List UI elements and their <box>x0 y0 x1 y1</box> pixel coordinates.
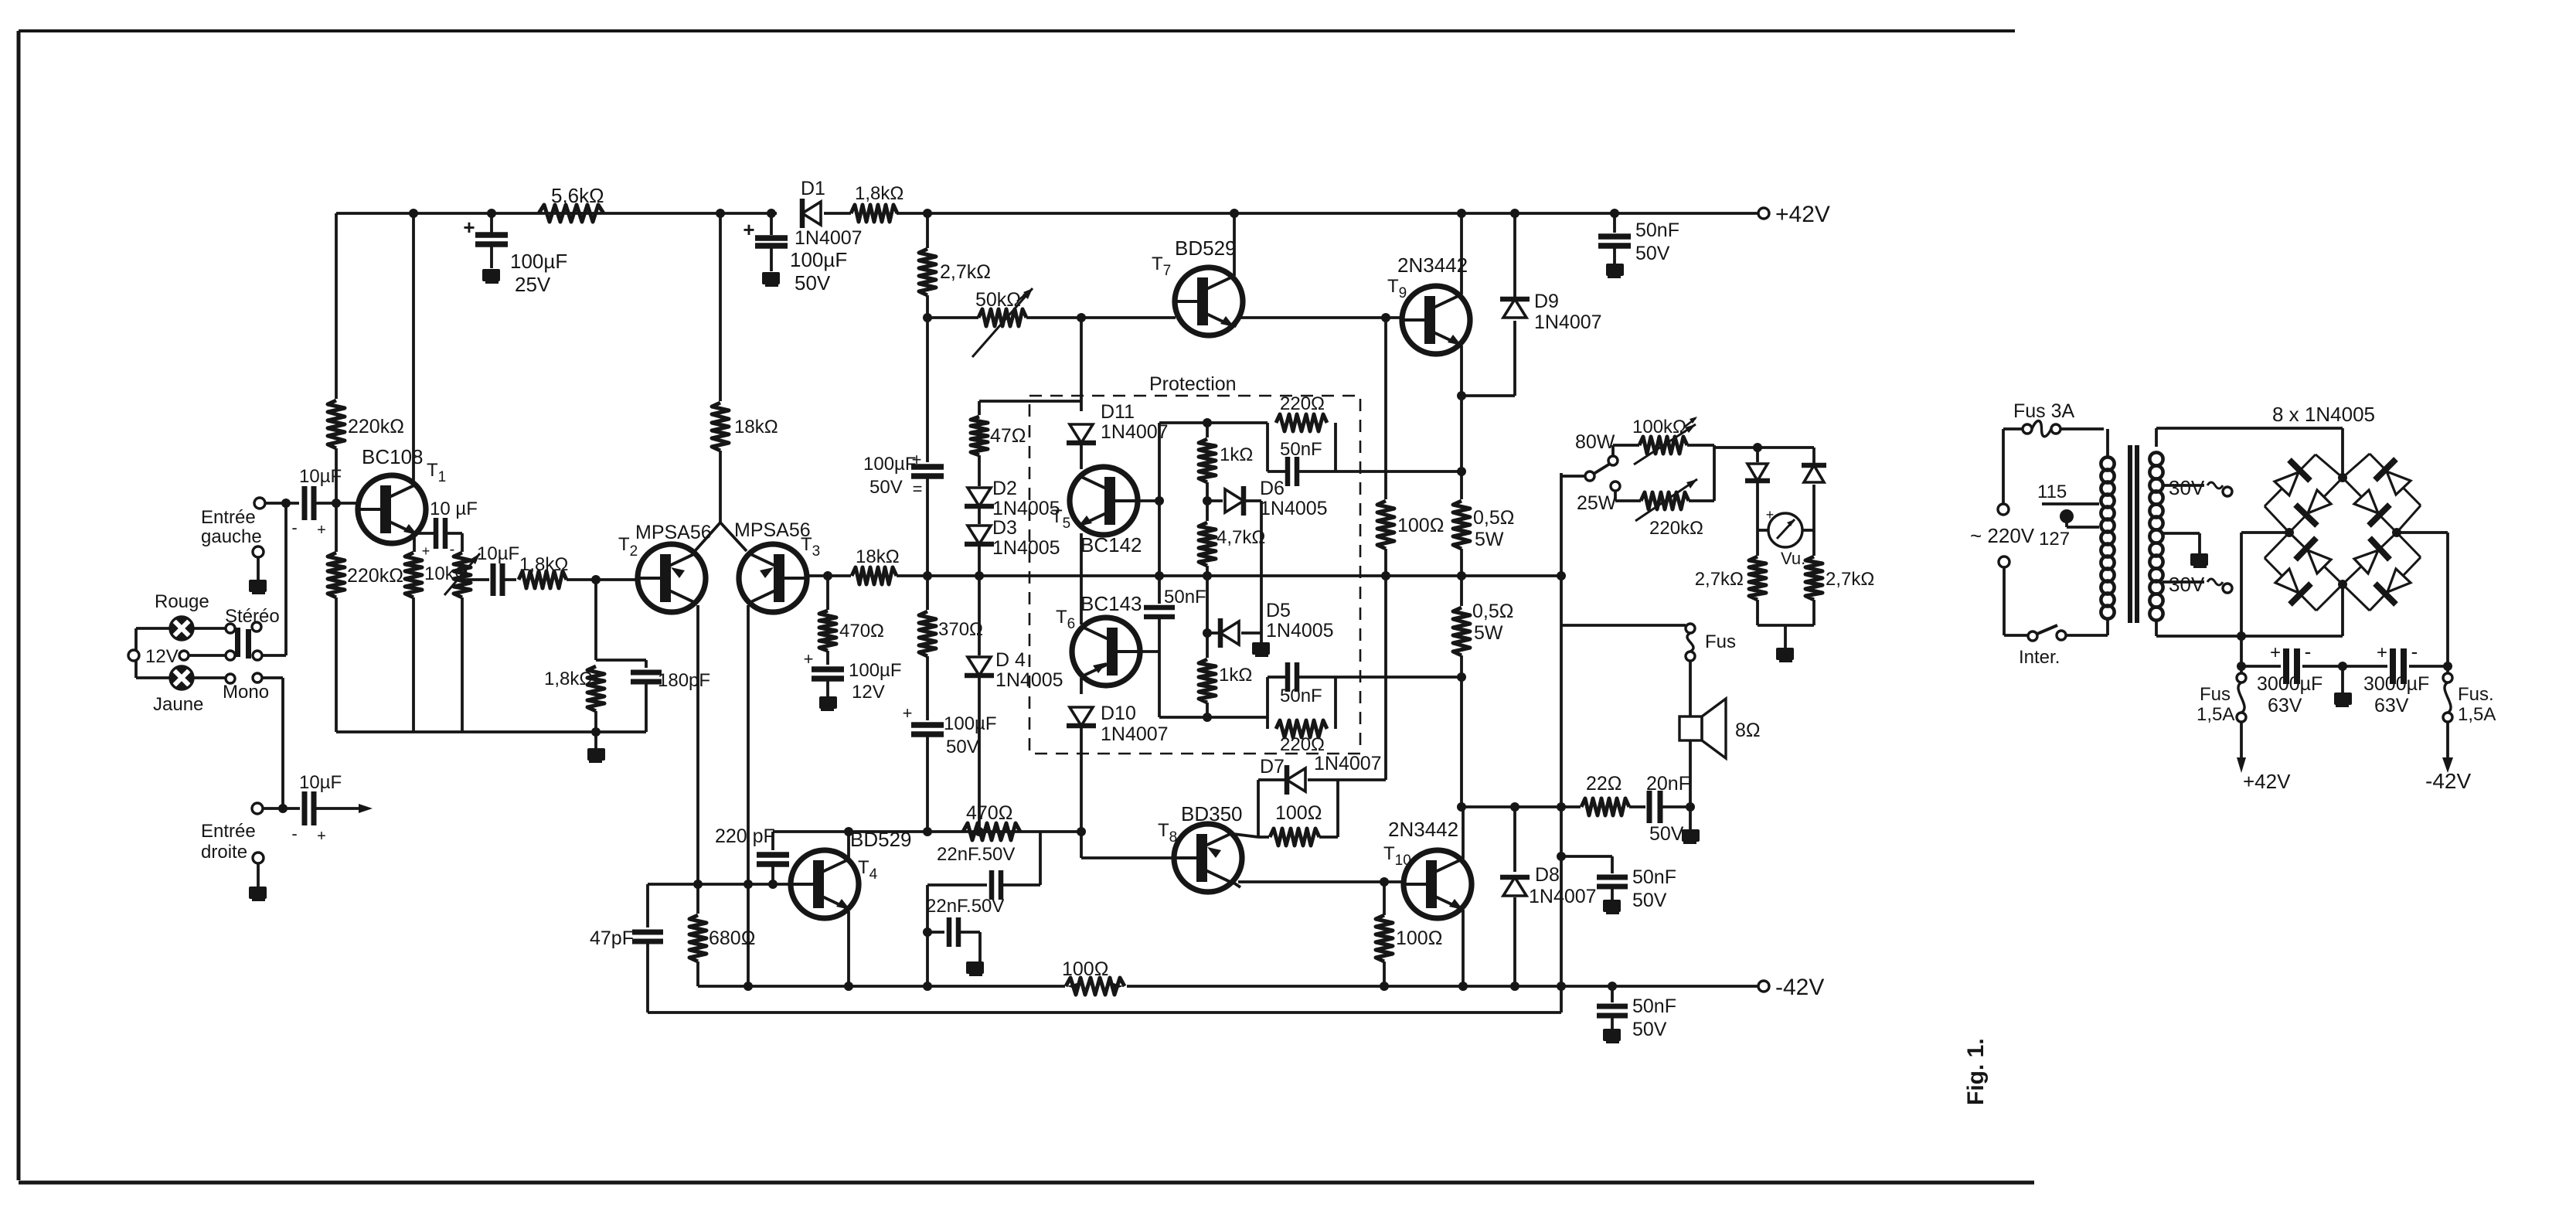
wire T7 collector <box>1233 213 1236 276</box>
svg-text:8 x 1N4005: 8 x 1N4005 <box>2272 403 2375 426</box>
svg-text:+: + <box>317 522 326 539</box>
transistor T2 MPSA56 <box>638 544 706 612</box>
wire snubber to 0,5 column <box>1336 676 1462 679</box>
svg-text:+: + <box>2377 642 2387 663</box>
wire output column <box>1560 473 1563 1012</box>
resistor 2,7k <box>919 249 936 295</box>
resistor 100 parallel D7 <box>1258 836 1269 839</box>
wire T1 emitter column <box>413 533 416 552</box>
wire feedback node down <box>594 580 597 660</box>
diode D4 1N4005 <box>968 657 991 676</box>
svg-text:~ 220V: ~ 220V <box>1970 524 2035 547</box>
transistor T7 BD529 <box>1175 267 1243 335</box>
capacitor 10uF right channel <box>263 807 300 810</box>
wire VU ground <box>1758 624 1814 627</box>
capacitor 10uF emitter <box>414 532 434 535</box>
wire mains top <box>2003 427 2023 431</box>
wire +42V rail <box>336 212 777 215</box>
wire input to cap <box>265 502 299 505</box>
wire snubber to T9 emitter column <box>1336 470 1462 473</box>
resistor 220k upper <box>335 213 338 399</box>
svg-text:Fig. 1.: Fig. 1. <box>1963 1038 1989 1105</box>
wire 47ohm tap <box>979 400 1081 403</box>
svg-text:BD350: BD350 <box>1181 802 1243 825</box>
wire T10 collector <box>1462 807 1465 859</box>
svg-text:100µF: 100µF <box>510 250 567 273</box>
svg-text:220kΩ: 220kΩ <box>348 416 404 437</box>
capacitor 3000uF 63V right <box>2390 648 2396 684</box>
svg-text:D8: D8 <box>1535 864 1560 886</box>
resistor 470 to ground leg <box>826 576 829 610</box>
svg-text:1N4007: 1N4007 <box>1314 753 1382 774</box>
svg-text:-: - <box>291 518 297 537</box>
transistor T9 2N3442 <box>1402 286 1470 354</box>
bridge diode 6 <box>2370 557 2421 611</box>
svg-text:Jaune: Jaune <box>153 694 203 715</box>
transistor T10 2N3442 <box>1404 850 1472 918</box>
resistor 47 <box>971 417 988 455</box>
capacitor 50nF on -42V rail <box>1608 982 1617 991</box>
svg-text:D7: D7 <box>1260 756 1285 778</box>
svg-text:3000µF: 3000µF <box>2257 673 2322 695</box>
svg-text:8Ω: 8Ω <box>1735 720 1761 741</box>
transformer secondary <box>2155 428 2158 447</box>
svg-text:10µF: 10µF <box>299 772 342 793</box>
resistor 1k upper <box>1206 423 1209 437</box>
wire T9 emitter <box>1460 345 1463 396</box>
svg-text:115: 115 <box>2037 482 2067 502</box>
resistor 5,6k <box>539 205 604 222</box>
svg-text:-: - <box>2411 640 2418 663</box>
svg-text:+: + <box>1766 507 1775 522</box>
ground mid rail <box>2341 666 2344 693</box>
resistor 4,7k <box>1206 501 1209 521</box>
resistor 680 <box>696 884 699 914</box>
wire D10 to T8 base <box>1080 832 1083 858</box>
wire D7 node up to output rail <box>1338 778 1386 781</box>
wire T5 emitter to T6 <box>1080 533 1083 625</box>
wire emitters join <box>695 522 720 551</box>
svg-text:Inter.: Inter. <box>2019 647 2060 668</box>
resistor 10k <box>405 553 422 597</box>
wire mono switch down to right input <box>262 676 283 679</box>
svg-text:Vu.: Vu. <box>1781 549 1805 568</box>
svg-text:2N3442: 2N3442 <box>1397 254 1468 277</box>
transistor T6 BC143 <box>1072 618 1140 686</box>
wire secondary bottom <box>2156 635 2343 638</box>
terminal +42V <box>1758 208 1769 219</box>
svg-text:25W: 25W <box>1577 492 1617 514</box>
svg-text:MPSA56: MPSA56 <box>734 519 811 541</box>
svg-text:1N4007: 1N4007 <box>795 227 863 249</box>
wire T5/T6 base column <box>1158 423 1161 604</box>
diode D3 1N4005 <box>968 526 991 544</box>
svg-text:Protection: Protection <box>1149 373 1237 395</box>
svg-text:18kΩ: 18kΩ <box>734 417 778 437</box>
terminal Entree droite <box>252 803 263 814</box>
fuse 1,5A left <box>2237 662 2246 671</box>
potentiometer 10k trim <box>461 533 464 552</box>
capacitor 100uF 25V <box>490 213 493 233</box>
resistor 0,5 5W lower <box>1460 576 1463 606</box>
wire T7 emitter to T9 base <box>1234 318 1240 327</box>
svg-text:-: - <box>2305 640 2312 663</box>
wire -42V rail <box>698 985 1065 988</box>
resistor 18k feedback <box>852 567 897 584</box>
svg-text:2N3442: 2N3442 <box>1388 818 1458 841</box>
page frame <box>19 29 2015 32</box>
wire bridge S down <box>2341 584 2344 636</box>
svg-text:47Ω: 47Ω <box>990 425 1026 447</box>
svg-text:100µF: 100µF <box>849 660 902 681</box>
svg-text:220Ω: 220Ω <box>1280 393 1325 414</box>
svg-text:BC143: BC143 <box>1080 592 1142 615</box>
wire secondary top to bridge <box>2156 427 2343 430</box>
svg-text:1,8kΩ: 1,8kΩ <box>519 554 568 575</box>
snubber 470R/22nF <box>963 823 1020 840</box>
svg-text:+42V: +42V <box>2243 770 2291 793</box>
secondary tap 30V lower <box>2163 580 2204 584</box>
potentiometer 220k <box>1614 491 1617 501</box>
svg-text:5W: 5W <box>1475 529 1504 550</box>
wire 2,7k column <box>926 213 929 248</box>
wire lower base row <box>1159 716 1268 719</box>
svg-text:D1: D1 <box>801 178 825 199</box>
bridge diode 8 <box>2343 533 2397 584</box>
transistor T3 MPSA56 <box>739 544 807 612</box>
wire T6 base <box>1140 650 1159 653</box>
wire with arrow to other channel <box>315 807 360 810</box>
diode D7 1N4007 <box>1258 778 1285 781</box>
capacitor 50nF mid <box>1144 605 1175 611</box>
resistor 220k lower <box>335 503 338 552</box>
svg-text:220kΩ: 220kΩ <box>347 565 403 587</box>
lamp Jaune <box>170 666 193 689</box>
diode D8 1N4007 <box>1513 807 1516 872</box>
wire D6-D5 link <box>1260 501 1263 633</box>
wire bridge E out <box>2397 531 2448 534</box>
svg-text:1N4007: 1N4007 <box>1101 723 1169 745</box>
capacitor 3000uF 63V left <box>2283 648 2289 684</box>
svg-text:Rouge: Rouge <box>155 591 209 612</box>
svg-text:10µF: 10µF <box>477 543 519 564</box>
svg-text:D 4: D 4 <box>995 649 1026 671</box>
svg-text:-42V: -42V <box>1775 975 1824 1000</box>
svg-text:22Ω: 22Ω <box>1586 773 1622 795</box>
svg-text:D2: D2 <box>992 478 1017 499</box>
wire T4 base rail <box>648 883 791 886</box>
svg-text:Mono: Mono <box>223 682 269 703</box>
svg-text:30V: 30V <box>2169 573 2205 596</box>
svg-text:100µF: 100µF <box>863 454 917 475</box>
capacitor 100uF 50V lower <box>911 722 944 728</box>
svg-text:100kΩ: 100kΩ <box>1632 417 1686 437</box>
wire T4 collector <box>847 832 850 860</box>
svg-text:50nF: 50nF <box>1632 866 1676 888</box>
fuse output Fus <box>1561 624 1686 627</box>
wire T2 collector down <box>696 605 699 884</box>
resistor 1,8k to ground <box>587 666 604 711</box>
wire T9 collector <box>1460 213 1463 294</box>
ground <box>819 696 837 709</box>
protection dashed box <box>1029 396 1360 754</box>
capacitor 50nF on +42 rail <box>1610 209 1619 218</box>
svg-text:5W: 5W <box>1474 622 1503 644</box>
svg-text:BD529: BD529 <box>850 828 912 851</box>
svg-text:50nF: 50nF <box>1632 995 1676 1017</box>
snubber 220R/50nF lower <box>1266 677 1269 729</box>
svg-text:+: + <box>903 703 913 723</box>
wire T8 collector to T10 base <box>1234 883 1240 887</box>
svg-text:Fus: Fus <box>1705 631 1736 652</box>
svg-text:+: + <box>317 828 326 845</box>
svg-text:-42V: -42V <box>2425 769 2471 793</box>
svg-text:1N4005: 1N4005 <box>992 498 1060 519</box>
svg-text:50V: 50V <box>1649 823 1684 845</box>
svg-text:+: + <box>463 216 475 239</box>
svg-text:50V: 50V <box>1632 890 1667 911</box>
speaker 8ohm <box>1679 716 1702 740</box>
bridge diode 3 <box>2289 478 2343 533</box>
svg-text:12V: 12V <box>145 646 179 667</box>
svg-text:1,8kΩ: 1,8kΩ <box>855 183 903 204</box>
svg-text:-: - <box>291 824 297 843</box>
svg-text:63V: 63V <box>2268 695 2302 716</box>
wire DC rail with caps <box>2241 665 2281 668</box>
ground <box>249 580 267 592</box>
wire pots to VU bridge <box>1687 444 1714 447</box>
ground D5 <box>1260 633 1263 642</box>
svg-text:470Ω: 470Ω <box>839 621 884 642</box>
wire stereo switch to input <box>262 654 286 657</box>
capacitor 100uF 50V mid <box>926 318 929 462</box>
diode VU right <box>1812 448 1815 464</box>
svg-text:20nF: 20nF <box>1646 773 1690 795</box>
wire 50k to T7 base <box>1081 316 1176 319</box>
terminal -42V <box>1758 981 1769 992</box>
diode D5 1N4005 <box>1207 631 1218 635</box>
svg-text:MPSA56: MPSA56 <box>635 522 712 543</box>
svg-text:12V: 12V <box>852 682 885 703</box>
diode D11 1N4007 <box>1080 318 1083 411</box>
svg-text:Entrée: Entrée <box>201 821 256 842</box>
svg-text:2,7kΩ: 2,7kΩ <box>1695 569 1744 590</box>
svg-text:+: + <box>912 450 922 469</box>
svg-text:100Ω: 100Ω <box>1275 802 1322 824</box>
svg-text:100Ω: 100Ω <box>1396 927 1442 949</box>
transformer primary <box>2106 618 2109 635</box>
svg-text:D9: D9 <box>1534 291 1559 312</box>
svg-text:D11: D11 <box>1101 401 1135 423</box>
bridge diode 4 <box>2343 478 2397 533</box>
wire to T2 base <box>567 578 638 581</box>
svg-text:50V: 50V <box>1635 243 1670 264</box>
svg-text:2,7kΩ: 2,7kΩ <box>940 261 991 283</box>
diode D2 1N4005 <box>968 488 991 506</box>
svg-text:1,5A: 1,5A <box>2458 704 2496 725</box>
transistor T1 BC108 <box>358 475 426 543</box>
resistor 370 <box>926 576 929 610</box>
svg-text:2,7kΩ: 2,7kΩ <box>1826 569 1874 590</box>
svg-text:BC142: BC142 <box>1080 533 1142 556</box>
capacitor 180pF <box>645 660 648 668</box>
resistor 100 T10 base <box>1383 882 1386 915</box>
svg-text:50kΩ: 50kΩ <box>975 289 1021 311</box>
svg-text:180pF: 180pF <box>658 670 710 691</box>
svg-text:BD529: BD529 <box>1175 237 1237 260</box>
fuse 1,5A right <box>2443 662 2452 671</box>
svg-text:50nF: 50nF <box>1280 439 1322 460</box>
wire T3 base node <box>807 574 851 577</box>
wire T1 collector up <box>412 213 415 485</box>
capacitor 100uF 50V (left of D1) <box>770 213 773 235</box>
transistor T4 BD529 <box>791 850 859 918</box>
svg-text:1N4005: 1N4005 <box>992 537 1060 559</box>
svg-text:+42V: +42V <box>1775 202 1830 227</box>
svg-text:D10: D10 <box>1101 703 1136 724</box>
svg-text:22nF.50V: 22nF.50V <box>937 844 1015 865</box>
svg-text:Entrée: Entrée <box>201 507 256 528</box>
wire T4 emitter <box>847 911 850 986</box>
svg-text:1N4005: 1N4005 <box>1260 498 1328 519</box>
svg-text:1,5A: 1,5A <box>2197 704 2234 725</box>
svg-text:gauche: gauche <box>201 526 262 547</box>
svg-text:Fus.: Fus. <box>2458 684 2494 705</box>
svg-text:50V: 50V <box>1632 1019 1667 1040</box>
svg-text:droite: droite <box>201 842 247 863</box>
svg-text:Fus: Fus <box>2200 684 2231 705</box>
svg-text:22nF.50V: 22nF.50V <box>926 896 1004 917</box>
svg-text:Fus 3A: Fus 3A <box>2013 400 2075 422</box>
switch Inter <box>2004 634 2028 637</box>
resistor 18k from rail <box>719 213 722 401</box>
switch 80W/25W <box>1561 475 1585 478</box>
svg-text:D3: D3 <box>992 517 1017 539</box>
resistor 1,8k series <box>519 571 567 588</box>
transistor T8 BD350 <box>1174 824 1242 892</box>
diode D9 1N4007 <box>1462 394 1515 397</box>
resistor 100 bias <box>1384 318 1387 499</box>
svg-text:0,5Ω: 0,5Ω <box>1473 507 1514 529</box>
capacitor 10uF to 2nd stage <box>467 578 489 581</box>
wire VAS top rail <box>773 830 1080 833</box>
wire ground bus under input stage <box>336 730 646 733</box>
svg-text:30V: 30V <box>2169 476 2205 499</box>
secondary center tap <box>2163 532 2200 535</box>
svg-text:+: + <box>2270 642 2281 663</box>
capacitor 100uF 12V <box>812 666 844 672</box>
svg-text:10 µF: 10 µF <box>430 499 478 519</box>
svg-text:50V: 50V <box>869 477 903 498</box>
resistor 1k lower <box>1206 633 1209 658</box>
svg-text:4,7kΩ: 4,7kΩ <box>1217 527 1265 548</box>
lamp Rouge <box>170 617 193 640</box>
diode D1 1N4007 <box>802 202 821 225</box>
wire T8 emitter to 100R/D7 box <box>1234 834 1258 837</box>
svg-text:3000µF: 3000µF <box>2363 673 2429 695</box>
transistor T5 BC142 <box>1070 467 1138 535</box>
svg-text:1N4007: 1N4007 <box>1534 311 1602 333</box>
svg-text:1kΩ: 1kΩ <box>1220 444 1253 465</box>
wire mid output rail <box>927 574 1206 577</box>
svg-text:470Ω: 470Ω <box>966 802 1012 824</box>
svg-text:50nF: 50nF <box>1164 587 1206 607</box>
diode VU left <box>1756 448 1759 462</box>
zobel 22R + 20nF <box>1561 805 1581 808</box>
svg-text:63V: 63V <box>2374 695 2409 716</box>
svg-text:50V: 50V <box>946 737 979 757</box>
ground <box>587 748 605 761</box>
terminal mains upper <box>1998 504 2009 515</box>
svg-text:0,5Ω: 0,5Ω <box>1472 601 1513 622</box>
svg-text:18kΩ: 18kΩ <box>856 546 900 567</box>
svg-text:127: 127 <box>2039 529 2070 550</box>
capacitor 220pF <box>771 832 774 850</box>
capacitor 47pF <box>646 884 649 927</box>
svg-text:5,6kΩ: 5,6kΩ <box>551 184 604 207</box>
resistor 2,7k left <box>1756 530 1759 556</box>
svg-text:100Ω: 100Ω <box>1062 958 1108 980</box>
svg-text:220 pF: 220 pF <box>715 825 775 847</box>
wire top bias row <box>1159 421 1268 424</box>
svg-text:+: + <box>804 649 814 669</box>
transformer core <box>2128 445 2132 623</box>
terminal mains lower <box>1999 556 2009 567</box>
svg-text:80W: 80W <box>1575 431 1615 453</box>
capacitor 22nF to ground <box>927 931 944 934</box>
potentiometer 100k <box>1611 445 1615 456</box>
terminal Entree gauche <box>254 498 265 509</box>
bridge rectifier 8x1N4005 <box>2316 454 2343 478</box>
snubber 220R/50nF upper <box>1266 423 1269 471</box>
terminal below entree droite <box>253 853 264 863</box>
wire T3 collector down <box>747 605 750 884</box>
potentiometer 50k <box>927 316 978 319</box>
resistor 2,7k right <box>1812 530 1815 556</box>
wire T10 collector row <box>1463 805 1561 808</box>
bridge diode 1 <box>2265 454 2316 506</box>
diode D6 1N4005 <box>1207 499 1223 502</box>
wire T10 emitter <box>1462 910 1465 986</box>
svg-text:1,8kΩ: 1,8kΩ <box>544 669 593 689</box>
wire feedback bottom rail <box>648 1011 1561 1014</box>
ground under speaker <box>1689 807 1692 829</box>
capacitor 50nF mid column <box>1561 855 1612 858</box>
meter Vu <box>1756 512 1759 530</box>
wire cap to T1 base <box>315 502 358 505</box>
svg-text:50V: 50V <box>795 271 831 294</box>
wire T5 base <box>1138 499 1159 502</box>
svg-text:220kΩ: 220kΩ <box>1649 518 1703 539</box>
svg-text:50nF: 50nF <box>1635 220 1679 241</box>
svg-text:100µF: 100µF <box>790 248 847 271</box>
svg-text:D6: D6 <box>1260 478 1285 499</box>
terminal 12V <box>128 650 139 661</box>
secondary tap 30V upper <box>2163 484 2204 487</box>
svg-text:1kΩ: 1kΩ <box>1219 665 1252 686</box>
svg-text:D5: D5 <box>1266 600 1291 621</box>
svg-text:+: + <box>422 543 430 559</box>
diode D10 1N4007 <box>1080 678 1083 694</box>
resistor 0,5 5W upper <box>1460 396 1463 499</box>
svg-text:100Ω: 100Ω <box>1397 515 1444 536</box>
bridge diode 2 <box>2370 454 2421 505</box>
svg-text:50nF: 50nF <box>1280 686 1322 706</box>
svg-text:=: = <box>913 479 923 499</box>
svg-text:220Ω: 220Ω <box>1280 734 1325 755</box>
bridge diode 7 <box>2289 533 2343 584</box>
wire bridge W out <box>2241 531 2289 534</box>
